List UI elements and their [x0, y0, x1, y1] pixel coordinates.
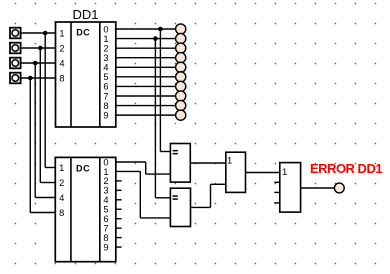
svg-text:DD1: DD1 [72, 7, 98, 22]
svg-text:4: 4 [59, 58, 64, 68]
svg-text:7: 7 [103, 91, 108, 101]
svg-text:9: 9 [103, 242, 108, 252]
svg-text:DC: DC [76, 27, 90, 37]
svg-text:8: 8 [103, 101, 108, 111]
svg-text:1: 1 [103, 34, 108, 44]
svg-text:DC: DC [76, 164, 90, 174]
svg-text:4: 4 [59, 193, 64, 203]
svg-text:2: 2 [103, 43, 108, 53]
svg-text:8: 8 [59, 208, 64, 218]
svg-text:4: 4 [103, 63, 108, 73]
svg-text:1: 1 [59, 163, 64, 173]
svg-text:9: 9 [103, 110, 108, 120]
svg-text:2: 2 [59, 178, 64, 188]
svg-text:0: 0 [103, 24, 108, 34]
svg-text:2: 2 [59, 43, 64, 53]
svg-text:ERROR DD1: ERROR DD1 [310, 161, 382, 176]
svg-text:5: 5 [103, 72, 108, 82]
svg-text:8: 8 [59, 73, 64, 83]
svg-text:1: 1 [59, 28, 64, 38]
svg-text:1: 1 [227, 155, 232, 166]
svg-text:6: 6 [103, 82, 108, 92]
svg-text:1: 1 [282, 167, 287, 178]
svg-text:3: 3 [103, 53, 108, 63]
